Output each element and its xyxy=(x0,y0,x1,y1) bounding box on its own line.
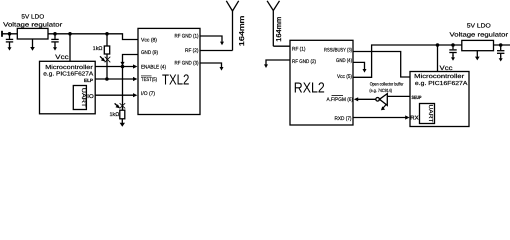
node junction dot (1k resistor) xyxy=(105,32,109,36)
svg-text:164mm: 164mm xyxy=(276,17,283,42)
wire: left supply rail xyxy=(2,34,138,40)
wire: AF/PGM(6) from buffer xyxy=(354,97,358,101)
wire: GND(4) to ground xyxy=(353,62,365,69)
ground (below R2) xyxy=(120,123,125,127)
resistor R1 1kOhm xyxy=(106,34,108,46)
svg-text:TEST(5): TEST(5) xyxy=(141,77,157,83)
resistor R2 1kOhm (GND line) xyxy=(122,108,124,110)
node junction dot (cap C2) xyxy=(53,32,57,36)
ground (right regulator) xyxy=(476,51,478,57)
microcontroller U2 box (right) xyxy=(410,72,469,127)
svg-text:Microcontroller: Microcontroller xyxy=(45,64,93,71)
ground arrow (GND(9) onto ENABLE wire) xyxy=(120,62,124,66)
svg-text:Vcc: Vcc xyxy=(440,65,454,72)
svg-text:Vcc: Vcc xyxy=(55,54,69,61)
svg-text:RF GND (3): RF GND (3) xyxy=(175,61,199,67)
wire: MCU to TEST(5) xyxy=(95,78,134,80)
svg-text:1kΩ: 1kΩ xyxy=(110,112,120,118)
svg-text:Voltage regulator: Voltage regulator xyxy=(3,22,62,29)
chassis ground star (bottom of GND line) xyxy=(120,103,126,108)
ground (left regulator) xyxy=(32,39,34,48)
capacitor C3 xyxy=(452,45,454,49)
node junction dot (GND to ENABLE wire) xyxy=(121,65,125,69)
svg-text:A.F/PGM (6): A.F/PGM (6) xyxy=(327,97,354,103)
svg-text:Vcc (8): Vcc (8) xyxy=(141,37,157,43)
svg-text:RF GND (2): RF GND (2) xyxy=(292,59,316,65)
capacitor C2 xyxy=(54,34,56,39)
antenna ANT1 xyxy=(232,11,234,51)
module RXL2 box xyxy=(290,40,353,125)
ground (C1) xyxy=(8,47,12,50)
svg-text:RF GND (1): RF GND (1) xyxy=(175,34,199,40)
wire: Vcc feed down to microcontroller xyxy=(69,34,71,62)
svg-text:Microcontroller: Microcontroller xyxy=(414,73,464,80)
svg-text:e.g. PIC16F627A: e.g. PIC16F627A xyxy=(415,80,468,87)
svg-text:IO: IO xyxy=(87,94,93,100)
wire: MCU to ENABLE(4) xyxy=(95,66,134,68)
wire: buffer input from right MCU xyxy=(387,95,410,97)
svg-text:Vcc (5): Vcc (5) xyxy=(337,74,352,80)
node junction dot (cap C4) xyxy=(499,43,503,47)
svg-text:RXL2: RXL2 xyxy=(294,81,325,97)
svg-text:ENABLE (4): ENABLE (4) xyxy=(141,65,166,71)
svg-text:1kΩ: 1kΩ xyxy=(93,46,103,52)
node junction dot (cap C1) xyxy=(8,32,12,36)
svg-text:RSSI/BUSY (3): RSSI/BUSY (3) xyxy=(324,48,352,54)
wire: right regulator input rail xyxy=(494,44,510,46)
UART block (right MCU) xyxy=(420,104,435,124)
wire: UART TX to I/O(7) xyxy=(94,94,134,96)
wire: RF GND(1) to ground xyxy=(200,36,222,42)
svg-text:Open collector buffer: Open collector buffer xyxy=(370,81,404,86)
capacitor C1 xyxy=(9,34,11,39)
svg-text:e.g. PIC16F627A: e.g. PIC16F627A xyxy=(43,71,93,78)
wire: Vcc feed down to right MCU xyxy=(437,45,439,72)
regulator VR1 box (left 5V LDO) xyxy=(17,28,48,39)
svg-text:ELP: ELP xyxy=(84,78,94,84)
wire: RF GND(2) to ground xyxy=(266,60,290,65)
UART block (left MCU) xyxy=(73,86,86,110)
svg-text:RX: RX xyxy=(410,116,419,122)
wire: RSSI/BUSY(3) to MCU xyxy=(353,52,410,78)
svg-text:TXL2: TXL2 xyxy=(162,73,190,89)
chassis ground star (below R1) xyxy=(105,57,111,63)
svg-text:Voltage regulator: Voltage regulator xyxy=(450,31,509,38)
wire: RF(2) to antenna xyxy=(200,50,233,52)
node junction dot (R1 to TEST wire) xyxy=(105,77,109,81)
wire: antenna to RXL2 RF(1) xyxy=(273,45,290,47)
svg-text:5V LDO: 5V LDO xyxy=(21,14,44,21)
node: left supply input stub xyxy=(1,31,3,37)
node junction dot (MCU Vcc feed right) xyxy=(436,43,440,47)
op-amp U3 open collector buffer xyxy=(376,98,380,102)
svg-text:GND (4): GND (4) xyxy=(336,58,352,64)
ground (C4) xyxy=(499,58,503,61)
svg-text:(e.g. 74C914): (e.g. 74C914) xyxy=(369,88,392,93)
microcontroller U1 box (left) xyxy=(40,61,96,114)
capacitor C4 xyxy=(500,45,502,50)
antenna ANT2 xyxy=(272,11,274,47)
svg-text:RF (1): RF (1) xyxy=(292,47,306,53)
wire: TXL2 GND(9) to ground rail xyxy=(123,55,139,109)
ground (C3) xyxy=(451,57,455,60)
node junction dot (cap C3) xyxy=(451,43,455,47)
regulator VR2 box (right 5V LDO) xyxy=(462,40,494,50)
wire: RXD(7) to right MCU RX xyxy=(353,117,406,119)
node junction dot (Vcc feed to MCU) xyxy=(68,32,72,36)
svg-text:UART: UART xyxy=(80,88,86,108)
wire: RF GND(3) to ground xyxy=(200,63,222,67)
svg-text:SEUP: SEUP xyxy=(412,95,423,101)
svg-text:I/O (7): I/O (7) xyxy=(141,91,155,97)
svg-text:RF (2): RF (2) xyxy=(185,48,199,54)
svg-text:GND (9): GND (9) xyxy=(141,50,158,56)
svg-text:164mm: 164mm xyxy=(239,15,246,46)
svg-text:5V LDO: 5V LDO xyxy=(467,23,491,30)
ground (C2) xyxy=(53,47,57,50)
module TXL2 box xyxy=(138,28,200,114)
svg-text:UART: UART xyxy=(427,105,433,124)
wire: Vcc(5) to supply rail xyxy=(353,45,462,77)
svg-text:RXD (7): RXD (7) xyxy=(335,116,352,122)
